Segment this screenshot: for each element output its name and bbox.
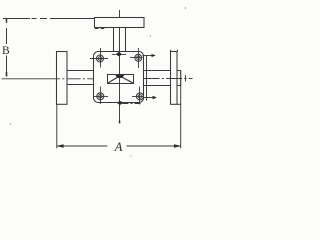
stem right line bbox=[125, 28, 127, 53]
wire B dimension line lower segment bbox=[6, 56, 8, 73]
centerline end tick right bbox=[185, 75, 187, 81]
wire arrow line right upper bbox=[143, 55, 153, 57]
A arrowhead left bbox=[56, 144, 63, 148]
scan noise dots bbox=[10, 7, 187, 156]
svg-text:B: B bbox=[2, 45, 10, 57]
wire top extension line dashed part bbox=[32, 18, 95, 20]
pipe right top edge bbox=[144, 70, 171, 72]
detail diagonal left bbox=[108, 78, 117, 84]
arrowhead right upper bbox=[152, 54, 156, 57]
wire B bottom arrow tick bbox=[6, 72, 8, 77]
wire hidden dash under bar bbox=[95, 28, 107, 30]
pipe right end face bbox=[177, 71, 181, 86]
indicator diamond top bbox=[116, 52, 123, 56]
wire stem centerline dash left bbox=[112, 54, 116, 56]
detail keystone bbox=[115, 75, 124, 78]
wire arrow line right lower bbox=[143, 97, 153, 99]
pipe left top edge bbox=[67, 70, 94, 72]
handwheel bar bbox=[95, 18, 145, 28]
pipe right joint line bbox=[146, 56, 148, 101]
centerline end dot bbox=[119, 121, 121, 124]
valve body outline bbox=[94, 52, 144, 103]
pipe right bottom edge bbox=[144, 85, 171, 87]
A dimension line right segment bbox=[127, 145, 181, 147]
stem left line bbox=[113, 28, 115, 53]
flange plate left bbox=[57, 52, 68, 105]
centerline horizontal left bbox=[2, 78, 47, 80]
wire stem centerline dash right bbox=[122, 54, 126, 56]
centerline horizontal right bbox=[144, 78, 193, 80]
svg-text:A: A bbox=[114, 140, 123, 154]
bolt circle LL bbox=[97, 93, 104, 100]
flange plate right bottom edge extension bbox=[177, 103, 181, 105]
bolt circle UL bbox=[97, 55, 104, 62]
wire B top arrow tick bbox=[6, 19, 8, 23]
flange plate right corner tick right bbox=[177, 50, 179, 52]
pipe left bottom edge bbox=[67, 84, 94, 86]
wire center vertical above bar bbox=[119, 10, 121, 18]
centerline bottom right dashdot bbox=[123, 103, 142, 105]
detail diagonal right bbox=[123, 78, 134, 84]
A arrowhead right bbox=[174, 144, 181, 148]
bolt circle UR bbox=[135, 54, 142, 61]
flange plate right bbox=[171, 52, 178, 105]
wire top extension line solid part bbox=[3, 18, 30, 20]
A extension line left bbox=[56, 104, 58, 148]
bolt circle LR bbox=[136, 93, 143, 100]
A dimension line left segment bbox=[57, 145, 108, 147]
wire B dimension line upper segment bbox=[6, 28, 8, 44]
arrowhead right lower bbox=[153, 96, 158, 99]
wire center vertical below bar bbox=[119, 28, 121, 123]
indicator diamond bottom bbox=[117, 101, 123, 105]
detail window rect bbox=[108, 75, 134, 84]
flange plate right corner tick left bbox=[170, 50, 172, 52]
A extension line right bbox=[180, 71, 182, 149]
